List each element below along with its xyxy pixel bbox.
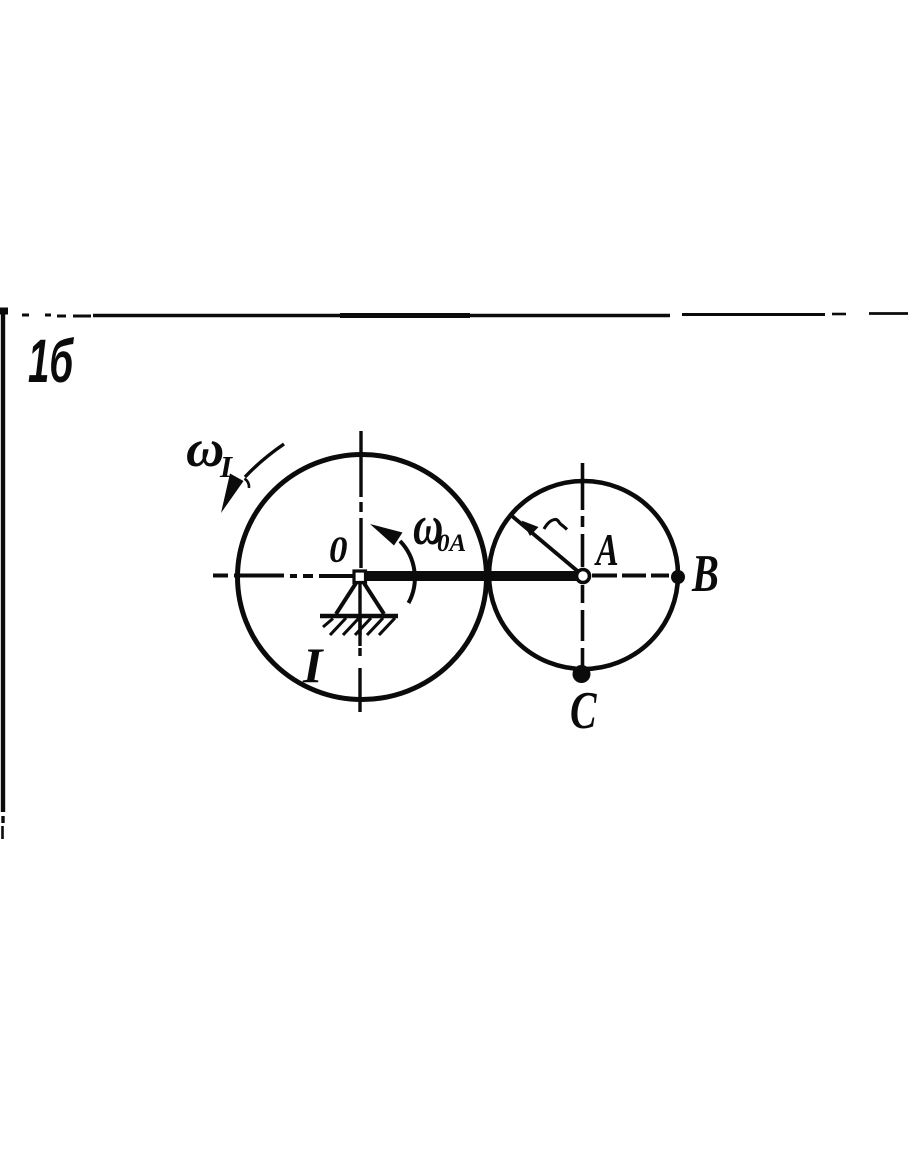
radius r line from A [512,516,581,574]
page border left edge [0,310,5,839]
label A [593,524,618,575]
svg-text:A: A [593,524,618,575]
radius r arrowhead [522,521,539,537]
svg-text:C: C [570,682,597,741]
svg-text:0: 0 [329,530,348,571]
omega_OA rotation arc [400,541,415,603]
page border top line [0,311,908,316]
point C (filled) [573,665,591,683]
label omega_OA glyph [413,494,443,556]
omega_I arrowhead [221,474,244,514]
pivot pin O (open square) [354,571,366,583]
horizontal dashed line A to B [592,574,669,578]
svg-text:B: B [691,545,719,604]
omega_I arrow tail hook [245,479,250,489]
wheel II (small circle) [489,481,678,669]
label C [570,682,597,741]
label r (handwritten squiggle) [544,519,567,529]
svg-text:1б: 1б [28,327,74,395]
point B (filled) [671,570,685,584]
crank link OA (thick bar) [363,571,578,581]
hatching under ground line [323,618,395,635]
vertical centerline of wheel I [360,431,361,712]
figure label 1b [28,327,74,395]
pivot support under O [320,580,398,646]
wheel I (large circle) [238,455,487,700]
svg-text:I: I [219,449,233,484]
vertical centerline of wheel II [581,463,585,668]
svg-text:ω: ω [186,420,224,478]
horizontal centerline left of O [213,574,356,579]
svg-text:0A: 0A [437,530,466,557]
omega_I arrow curve (outside wheel I) [245,444,284,477]
svg-text:I: I [302,637,324,693]
label B [691,545,719,604]
axle point A (open circle) [577,570,590,583]
omega_OA arrowhead [370,524,403,546]
